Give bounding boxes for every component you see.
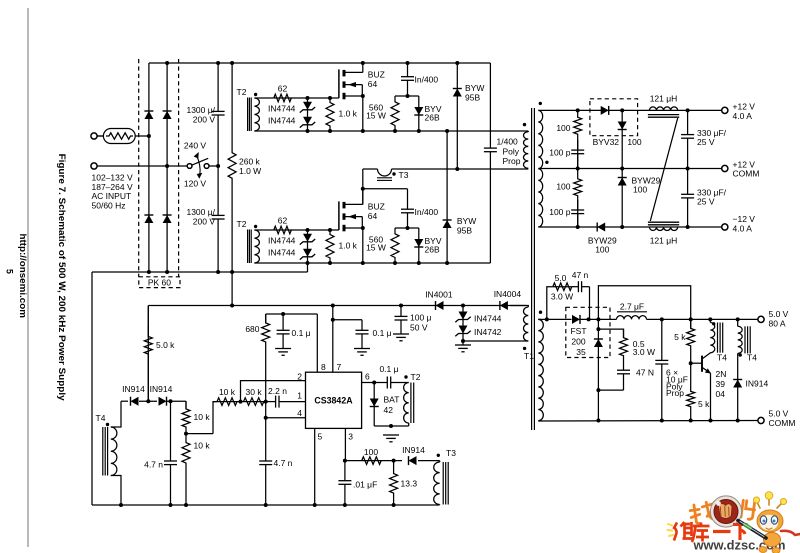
svg-text:IN914: IN914: [402, 445, 425, 455]
svg-text:62: 62: [278, 84, 288, 94]
svg-text:5.0 k: 5.0 k: [156, 340, 175, 350]
svg-text:1300 μ/: 1300 μ/: [186, 105, 215, 115]
svg-text:120 V: 120 V: [184, 179, 207, 189]
svg-text:680: 680: [245, 324, 259, 334]
svg-text:3: 3: [348, 432, 353, 442]
svg-text:5.0 V: 5.0 V: [769, 309, 789, 319]
svg-text:10 k: 10 k: [219, 387, 236, 397]
svg-text:Figure 7. Schematic of 500 W,: Figure 7. Schematic of 500 W, 200 kHz Po…: [57, 154, 67, 402]
svg-text:2.7 μF: 2.7 μF: [620, 301, 644, 311]
svg-text:IN4744: IN4744: [268, 248, 296, 258]
svg-text:3.0 W: 3.0 W: [633, 347, 655, 357]
svg-text:30 k: 30 k: [246, 387, 263, 397]
svg-text:64: 64: [368, 211, 378, 221]
svg-text:1: 1: [297, 390, 302, 400]
svg-text:50 V: 50 V: [410, 322, 428, 332]
svg-text:2N: 2N: [716, 369, 727, 379]
svg-text:IN4001: IN4001: [425, 290, 453, 300]
svg-text:0.1 μ: 0.1 μ: [379, 364, 398, 374]
svg-text:1.0 W: 1.0 W: [239, 166, 261, 176]
svg-text:8: 8: [321, 362, 326, 372]
svg-text:BYV32: BYV32: [593, 137, 620, 147]
svg-text:1.0 k: 1.0 k: [339, 109, 358, 119]
svg-text:47 n: 47 n: [572, 270, 589, 280]
svg-text:50/60 Hz: 50/60 Hz: [92, 201, 126, 211]
svg-text:26B: 26B: [425, 245, 440, 255]
svg-text:IN4004: IN4004: [494, 289, 522, 299]
svg-text:100: 100: [595, 245, 609, 255]
svg-text:Prop: Prop: [666, 388, 684, 398]
svg-text:IN4744: IN4744: [268, 104, 296, 114]
svg-text:121 μH: 121 μH: [650, 235, 678, 245]
svg-text:COMM: COMM: [769, 418, 796, 428]
svg-text:25 V: 25 V: [697, 196, 715, 206]
svg-text:4.0 A: 4.0 A: [733, 223, 753, 233]
svg-text:100 p: 100 p: [549, 147, 571, 157]
svg-text:T2: T2: [237, 219, 247, 229]
svg-text:1.0 k: 1.0 k: [339, 241, 358, 251]
svg-text:T3: T3: [399, 170, 409, 180]
svg-text:6: 6: [365, 372, 370, 382]
svg-text:100: 100: [627, 137, 641, 147]
svg-text:IN4744: IN4744: [268, 116, 296, 126]
svg-text:4.7 n: 4.7 n: [144, 460, 163, 470]
svg-text:COMM: COMM: [733, 169, 760, 179]
svg-text:100 p: 100 p: [549, 207, 571, 217]
svg-text:2.2 n: 2.2 n: [268, 386, 287, 396]
svg-text:PK 60: PK 60: [148, 277, 171, 287]
svg-text:T1: T1: [524, 351, 534, 361]
svg-text:100: 100: [364, 447, 378, 457]
svg-text:IN4744: IN4744: [474, 314, 502, 324]
svg-text:5.0 V: 5.0 V: [769, 409, 789, 419]
svg-text:5 k: 5 k: [698, 399, 710, 409]
svg-text:25 V: 25 V: [697, 137, 715, 147]
svg-text:BYW: BYW: [457, 216, 476, 226]
svg-text:IN4742: IN4742: [474, 327, 502, 337]
svg-text:5: 5: [318, 432, 323, 442]
svg-text:IN914: IN914: [746, 379, 769, 389]
svg-text:260 k: 260 k: [239, 157, 261, 167]
svg-text:3.0 W: 3.0 W: [551, 292, 573, 302]
svg-text:100: 100: [633, 184, 647, 194]
svg-text:80 A: 80 A: [769, 319, 786, 329]
svg-text:35: 35: [576, 347, 586, 357]
svg-text:0.1 μ: 0.1 μ: [373, 328, 392, 338]
svg-text:IN914: IN914: [150, 384, 173, 394]
svg-text:39: 39: [716, 379, 726, 389]
svg-text:95B: 95B: [457, 226, 472, 236]
svg-text:http://onsemi.com: http://onsemi.com: [18, 234, 28, 319]
svg-text:1/400: 1/400: [497, 136, 519, 146]
svg-text:4.7 n: 4.7 n: [274, 458, 293, 468]
svg-text:95B: 95B: [465, 93, 480, 103]
svg-text:BAT: BAT: [384, 394, 400, 404]
svg-text:26B: 26B: [425, 113, 440, 123]
svg-text:15 W: 15 W: [366, 243, 386, 253]
svg-text:In/400: In/400: [415, 207, 439, 217]
svg-text:IN4744: IN4744: [268, 236, 296, 246]
svg-text:13.3: 13.3: [401, 479, 418, 489]
svg-text:5: 5: [5, 269, 15, 274]
svg-text:T4: T4: [747, 353, 757, 363]
svg-text:200 V: 200 V: [193, 217, 216, 227]
svg-text:4: 4: [297, 408, 302, 418]
svg-text:In/400: In/400: [415, 75, 439, 85]
svg-text:42: 42: [384, 405, 394, 415]
svg-text:100: 100: [556, 123, 570, 133]
svg-text:Prop: Prop: [503, 156, 521, 166]
svg-text:5 k: 5 k: [674, 332, 686, 342]
svg-text:200 V: 200 V: [193, 115, 216, 125]
svg-text:15 W: 15 W: [366, 111, 386, 121]
svg-text:.01 μF: .01 μF: [353, 479, 377, 489]
svg-text:0.1 μ: 0.1 μ: [292, 328, 311, 338]
svg-text:240 V: 240 V: [184, 140, 207, 150]
svg-text:64: 64: [368, 79, 378, 89]
svg-text:47 N: 47 N: [636, 368, 654, 378]
svg-text:FST: FST: [570, 326, 586, 336]
svg-text:121 μH: 121 μH: [650, 93, 678, 103]
svg-text:BYW: BYW: [465, 83, 484, 93]
svg-text:IN914: IN914: [122, 384, 145, 394]
svg-text:10 k: 10 k: [194, 440, 211, 450]
svg-text:T2: T2: [411, 372, 421, 382]
svg-text:4.0 A: 4.0 A: [733, 111, 753, 121]
svg-text:04: 04: [716, 389, 726, 399]
svg-text:62: 62: [278, 216, 288, 226]
svg-text:T4: T4: [717, 353, 727, 363]
svg-text:CS3842A: CS3842A: [314, 395, 353, 405]
svg-text:5.0: 5.0: [555, 273, 567, 283]
svg-text:100: 100: [556, 182, 570, 192]
svg-text:10 k: 10 k: [194, 412, 211, 422]
svg-text:1300 μ/: 1300 μ/: [186, 207, 215, 217]
svg-text:200: 200: [571, 337, 585, 347]
svg-text:7: 7: [337, 362, 342, 372]
svg-text:T2: T2: [237, 87, 247, 97]
svg-text:T4: T4: [96, 413, 106, 423]
svg-text:100 μ: 100 μ: [410, 313, 432, 323]
svg-text:T3: T3: [446, 448, 456, 458]
